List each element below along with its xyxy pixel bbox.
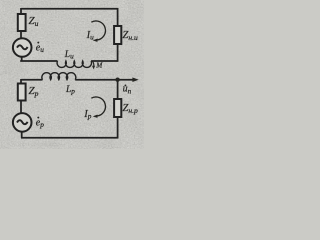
svg-text:вере: вере [122, 18, 133, 24]
svg-text:о: о [2, 26, 5, 32]
svg-text:ли с: ли с [1, 70, 12, 76]
svg-text:Lи: Lи [64, 50, 74, 61]
svg-text:овых: овых [95, 130, 108, 136]
svg-text:ное и: ное и [84, 122, 97, 128]
svg-text:Iи: Iи [86, 30, 95, 42]
svg-text:при обозна вере: при обозна вере [20, 141, 60, 148]
svg-text:M: M [95, 61, 103, 69]
svg-text:Iр: Iр [83, 109, 92, 121]
svg-text:нограни: нограни [100, 49, 120, 55]
